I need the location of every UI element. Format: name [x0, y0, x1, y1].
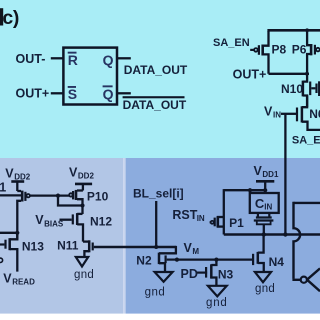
- wire VDD1 drop: [264, 181, 266, 193]
- wire V_IN bottom rail: [224, 233, 320, 236]
- svg-text:N3: N3: [218, 267, 234, 281]
- pin Qbar: [103, 85, 114, 102]
- svg-text:N6: N6: [309, 107, 320, 121]
- node RST_IN: [172, 208, 205, 223]
- junction N3 drain: [214, 258, 218, 262]
- svg-text:Q: Q: [103, 52, 114, 68]
- background white strip bottom: [0, 314, 320, 320]
- svg-text:S: S: [68, 86, 77, 102]
- svg-text:DD2: DD2: [14, 173, 31, 182]
- svg-text:c): c): [2, 7, 19, 29]
- wire SA_EN to P8 gate: [250, 49, 254, 51]
- cut-off transistor at right edge (N10 gate partner): [317, 81, 320, 96]
- svg-text:1: 1: [0, 180, 6, 194]
- nmos N6: [297, 96, 320, 130]
- pin Sbar: [68, 86, 77, 102]
- svg-text:N4: N4: [269, 255, 285, 269]
- svg-text:N13: N13: [22, 239, 44, 253]
- inverter triangle (cut off): [307, 268, 320, 291]
- junction C_IN box left: [248, 188, 252, 192]
- svg-text:P1: P1: [229, 216, 244, 230]
- wire left edge to N13 junction: [0, 232, 17, 234]
- power VDD1 bar: [256, 180, 274, 183]
- capacitor C_IN box: [250, 193, 279, 213]
- node V_IN: [264, 104, 281, 119]
- svg-text:SA_EN: SA_EN: [213, 37, 250, 49]
- cut-off bubble at left edge: [0, 258, 3, 262]
- svg-text:RST: RST: [172, 208, 197, 222]
- nmos N10: [303, 74, 316, 107]
- pin Rbar: [68, 52, 78, 68]
- wire V_M node row: [177, 258, 253, 260]
- svg-text:Q: Q: [103, 86, 114, 102]
- nmos N12: [73, 213, 83, 242]
- node V_DD2 right: [69, 166, 94, 181]
- svg-text:gnd: gnd: [74, 269, 94, 281]
- node V_DD2 left: [5, 166, 30, 181]
- wire from left edge to P11: [0, 194, 21, 196]
- svg-text:DD1: DD1: [262, 170, 279, 179]
- svg-text:gnd: gnd: [145, 287, 166, 299]
- svg-text:PD: PD: [181, 267, 198, 281]
- wire VDD1 node horizontal: [224, 189, 266, 191]
- label (c): [0, 8, 3, 25]
- svg-text:OUT-: OUT-: [16, 52, 46, 66]
- svg-text:V: V: [254, 164, 263, 178]
- svg-text:gnd: gnd: [206, 297, 228, 309]
- svg-text:OUT+: OUT+: [16, 87, 50, 101]
- svg-text:N11: N11: [57, 238, 79, 252]
- junction V_IN drop: [283, 232, 287, 236]
- svg-text:M: M: [192, 247, 199, 256]
- wire to inverter bubble: [292, 279, 300, 281]
- ground symbol under N2: [155, 272, 173, 282]
- nmos N3: [206, 260, 216, 286]
- wire BL_sel[i] drop: [155, 201, 157, 248]
- wire VDD rail top: [267, 29, 320, 32]
- junction OUT+ / N10 drain: [305, 72, 309, 76]
- wire V_BIAS to N12 gate: [60, 219, 72, 221]
- junction N2 gate: [175, 258, 179, 262]
- svg-text:V: V: [69, 166, 78, 180]
- pmos P10: [69, 184, 83, 214]
- nmos N13: [0, 232, 17, 272]
- power VDD2 bar (right): [75, 183, 92, 186]
- wire Qbar output: [117, 92, 131, 94]
- junction P6 source / rail: [305, 28, 309, 32]
- value C_IN: [255, 196, 273, 212]
- wire gate-drain tie of P10: [58, 196, 83, 206]
- wire PD to N3 gate: [196, 272, 207, 274]
- wire V_IN long vertical drop: [284, 114, 286, 235]
- junction VDD1 drop: [263, 188, 267, 192]
- svg-text:BIAS: BIAS: [44, 219, 64, 228]
- pmos P6: [307, 31, 320, 74]
- wire comparator block corner: [294, 202, 320, 204]
- svg-text:P10: P10: [87, 189, 109, 203]
- svg-text:P6: P6: [292, 43, 307, 57]
- panel gap: [123, 158, 125, 314]
- node V_M: [184, 241, 200, 256]
- svg-text:IN: IN: [264, 202, 272, 211]
- svg-text:SA_EN: SA_EN: [292, 135, 320, 147]
- junction gate tie: [56, 194, 60, 198]
- svg-text:DATA_OUT: DATA_OUT: [123, 98, 187, 112]
- panel right (darker blue): [126, 158, 320, 314]
- junction P11 drain / N13: [15, 231, 19, 235]
- svg-text:V: V: [5, 166, 14, 180]
- svg-text:READ: READ: [12, 278, 35, 287]
- wire P11/P10 gate tie: [30, 194, 69, 196]
- pmos P1: [210, 189, 224, 234]
- node DATA_OUT inverted: [123, 96, 187, 112]
- svg-text:gnd: gnd: [255, 283, 275, 295]
- svg-text:IN: IN: [197, 214, 205, 223]
- junction BL_sel / row wire: [154, 245, 158, 249]
- svg-text:N12: N12: [90, 214, 112, 228]
- junction P10 drain: [80, 203, 84, 207]
- svg-text:N2: N2: [136, 254, 152, 268]
- svg-text:R: R: [68, 52, 78, 68]
- svg-text:V: V: [35, 213, 44, 227]
- junction C_IN tap: [262, 232, 266, 236]
- node V_BIAS: [35, 213, 64, 228]
- svg-text:V: V: [3, 271, 12, 285]
- power VDD2 bar (left): [11, 180, 24, 183]
- wire Q output: [117, 57, 131, 59]
- wire OUT+ to latch S input: [51, 92, 64, 94]
- pmos P8: [254, 31, 268, 74]
- latch U1 box: [63, 48, 117, 105]
- node V_DD1: [254, 164, 279, 179]
- svg-text:V: V: [184, 241, 193, 255]
- svg-text:DATA_OUT: DATA_OUT: [124, 63, 188, 77]
- wire comparator vertical with hop over V_IN rail: [294, 202, 301, 279]
- nmos N11: [83, 240, 93, 257]
- svg-text:IN: IN: [273, 110, 281, 119]
- capacitor C_IN moscap plates: [254, 213, 274, 236]
- panel left (blue): [0, 158, 123, 314]
- nmos N2: [159, 246, 177, 272]
- wire OUT+ node: [269, 73, 310, 75]
- svg-text:OUT+: OUT+: [233, 67, 267, 81]
- svg-text:N10: N10: [281, 82, 303, 96]
- inverter output bubble: [301, 277, 307, 283]
- nmos N4: [253, 235, 264, 273]
- svg-text:BL_sel[i]: BL_sel[i]: [133, 186, 184, 200]
- background cyan top: [0, 0, 320, 158]
- wire OUT- to latch R input: [51, 57, 64, 59]
- ground symbol under N3: [208, 286, 227, 297]
- wire V_IN gate wire: [281, 113, 296, 115]
- ground symbol under N4: [255, 272, 271, 282]
- svg-text:P8: P8: [272, 43, 287, 57]
- svg-text:DD2: DD2: [78, 172, 95, 181]
- wire BL_sel row (N11 gate to N2 drain): [94, 246, 176, 248]
- pmos P11: [17, 182, 30, 240]
- svg-text:V: V: [264, 104, 273, 118]
- ground symbol under N11: [76, 257, 88, 267]
- node V_READ: [3, 271, 35, 286]
